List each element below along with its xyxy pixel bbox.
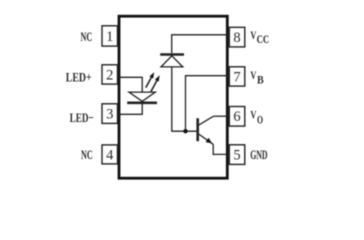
svg-text:LED−: LED− <box>70 110 94 125</box>
pin 6 label VO <box>250 108 263 127</box>
svg-text:NC: NC <box>81 147 93 162</box>
svg-text:V: V <box>250 108 256 122</box>
wire pin 7 to base node <box>186 76 230 132</box>
svg-text:GND: GND <box>250 147 267 162</box>
svg-text:V: V <box>250 68 256 82</box>
svg-text:8: 8 <box>233 30 240 46</box>
pin 8 label VCC <box>250 28 269 46</box>
svg-text:3: 3 <box>106 107 113 123</box>
pin 5 box <box>229 145 245 165</box>
IC package body <box>119 16 227 178</box>
wire photodiode anode to base node <box>172 67 198 131</box>
photodiode D2 <box>160 55 184 67</box>
svg-text:2: 2 <box>106 67 113 83</box>
pin 6 box <box>229 107 245 127</box>
pin 7 label VB <box>250 68 263 87</box>
pin 1 box <box>102 26 118 46</box>
wire pin 2 to LED anode <box>119 77 142 92</box>
svg-text:5: 5 <box>233 148 240 164</box>
svg-text:1: 1 <box>106 29 113 45</box>
pin 2 box <box>102 65 118 84</box>
svg-text:7: 7 <box>233 69 240 85</box>
LED D1 <box>127 92 157 103</box>
svg-text:4: 4 <box>106 147 114 163</box>
svg-text:6: 6 <box>233 109 240 125</box>
wire collector to pin 6 <box>214 115 230 117</box>
pin 3 box <box>102 104 118 124</box>
svg-text:NC: NC <box>81 29 93 44</box>
pin 7 box <box>229 67 245 86</box>
svg-text:B: B <box>257 73 264 87</box>
transistor Q1 <box>198 116 214 144</box>
wire emitter to pin 5 <box>213 144 229 154</box>
svg-text:LED+: LED+ <box>66 70 92 85</box>
light emission arrow 1 <box>146 72 154 87</box>
wire LED cathode to pin 3 <box>119 104 142 114</box>
junction dot node B <box>183 129 187 133</box>
pin 8 box <box>229 27 245 47</box>
pin 4 box <box>102 145 118 164</box>
wire pin 8 to photodiode cathode <box>172 35 230 53</box>
light emission arrow 2 <box>151 75 160 92</box>
svg-text:O: O <box>257 113 263 127</box>
svg-text:CC: CC <box>257 32 270 46</box>
